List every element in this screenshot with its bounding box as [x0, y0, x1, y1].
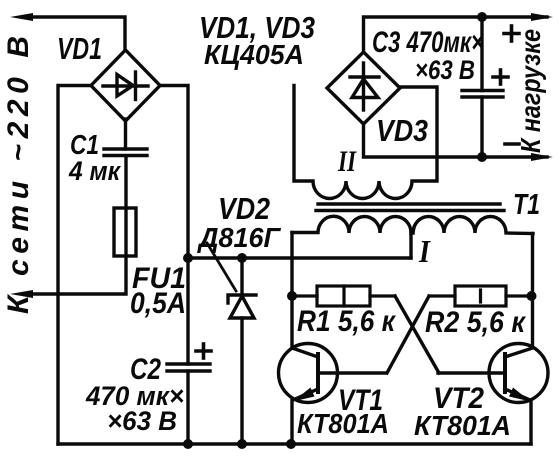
node: junction C3 - [477, 152, 487, 162]
diode symbol inside VD1 [103, 72, 148, 100]
svg-text:R2 5,6 к: R2 5,6 к [425, 306, 527, 339]
polarity - at output [505, 142, 519, 146]
wire: bottom rail [58, 442, 531, 445]
wire: right oscillator rail [531, 234, 534, 348]
svg-text:II: II [337, 145, 357, 178]
winding II of T1 [294, 86, 437, 199]
node: junction DC+ at C2 top [183, 253, 193, 263]
svg-text:КТ801А: КТ801А [414, 410, 511, 441]
svg-text:К нагрузке: К нагрузке [515, 29, 546, 153]
wire: C1 to fuse to mains bottom lead [28, 156, 126, 294]
leader line VD2 [207, 243, 236, 291]
resistor R2 [429, 286, 531, 306]
wire: DC+ horizontal to transformer center tap [188, 256, 411, 259]
svg-text:VD1: VD1 [57, 31, 102, 66]
svg-text:VD2: VD2 [218, 191, 270, 226]
wire: VD3 bottom vertex to - output [364, 123, 548, 157]
wire: VD1 left vertex to left rail [58, 86, 91, 445]
svg-text:I: I [418, 233, 431, 269]
arrow: mains top-left [10, 13, 33, 21]
winding I of T1 [292, 216, 533, 233]
capacitor C1 [104, 149, 147, 156]
arrow: mains bottom-left [10, 290, 33, 298]
svg-text:КЦ405А: КЦ405А [204, 39, 304, 70]
node: junction R1 left / VT1 collector [287, 291, 297, 301]
wire: VT2 emitter to bottom rail [529, 400, 532, 444]
arrow: VT1 emitter [293, 388, 315, 402]
node: junction C3 + [477, 12, 487, 22]
transistor VT1 [279, 344, 387, 403]
svg-text:T1: T1 [513, 189, 540, 221]
capacitor C3 [462, 17, 503, 157]
wire: DC+ rail below C2 [186, 371, 189, 444]
arrow: VT2 emitter [509, 388, 531, 402]
diode symbol inside VD3 [350, 63, 379, 110]
wire: left oscillator rail [290, 233, 293, 349]
svg-text:×63 В: ×63 В [415, 55, 475, 85]
wire: VT1 emitter to bottom rail [290, 400, 293, 444]
wire: VD3 top vertex to + output [364, 17, 548, 52]
zener diode VD2 [228, 258, 256, 444]
polarity + at output [504, 26, 519, 41]
svg-text:Д816Г: Д816Г [197, 222, 282, 253]
node: bottom rail junction C2 [183, 439, 193, 449]
arrow: output + [531, 13, 553, 21]
wire: cross-couple R1 to VT2 base [395, 296, 439, 373]
svg-text:0,5A: 0,5A [130, 287, 186, 320]
wire: cross-couple R2 to VT1 base [387, 296, 429, 373]
node: bottom rail junction VT1 emitter [286, 439, 296, 449]
node: junction R2 right / VT2 collector [527, 291, 537, 301]
capacitor C2 [167, 364, 210, 371]
transformer T1 core [316, 204, 504, 211]
node: bottom rail junction VD2 [237, 439, 247, 449]
svg-text:VD3: VD3 [376, 113, 428, 148]
polarity + of C2 [196, 344, 211, 358]
svg-text:4 мк: 4 мк [68, 156, 121, 186]
wire: VD1 bottom vertex to C1 [124, 119, 127, 149]
transistor VT2 [438, 344, 548, 403]
wire: winding I center tap [409, 233, 412, 258]
diode bridge VD3 [327, 52, 400, 124]
svg-text:КТ801А: КТ801А [297, 408, 389, 439]
node: junction VD2 cathode [237, 253, 247, 263]
svg-text:R1 5,6 к: R1 5,6 к [297, 305, 397, 338]
polarity + of C3 [493, 70, 508, 84]
fuse FU1 [114, 208, 136, 256]
wire: VD1 right vertex to DC+ vertical rail [160, 86, 188, 365]
svg-text:×63 В: ×63 В [107, 406, 177, 436]
svg-text:К сети ~220 В: К сети ~220 В [2, 36, 35, 314]
arrow: output - [531, 153, 553, 161]
diode bridge VD1 [91, 50, 160, 121]
wire: mains top lead to VD1 top vertex [28, 17, 125, 50]
resistor R1 [292, 286, 395, 306]
